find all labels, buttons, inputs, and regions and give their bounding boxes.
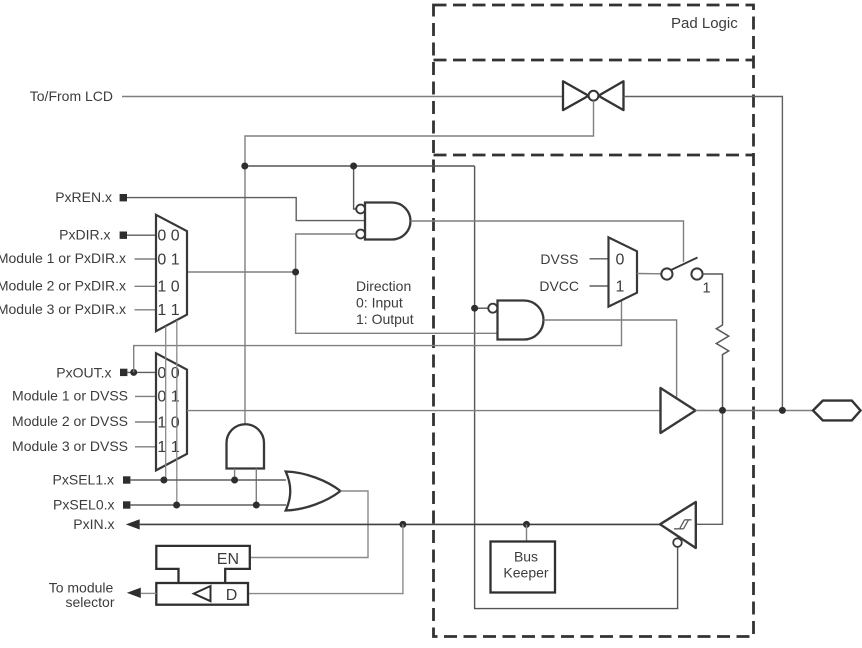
- svg-text:Pad Logic: Pad Logic: [671, 15, 738, 32]
- svg-text:DVSS: DVSS: [540, 251, 578, 267]
- and gate G3 vertical body: [227, 424, 265, 468]
- svg-text:0 1: 0 1: [157, 251, 179, 268]
- svg-text:PxOUT.x: PxOUT.x: [56, 364, 111, 380]
- svg-text:PxDIR.x: PxDIR.x: [59, 226, 110, 242]
- node junction direction net: [292, 269, 299, 276]
- mux M1 PxDIR select trapezoid: [156, 215, 187, 331]
- inner dashed box top line: [434, 59, 754, 62]
- svg-text:Module 3 or PxDIR.x: Module 3 or PxDIR.x: [0, 301, 126, 317]
- mux M2 PxOUT select trapezoid: [156, 353, 187, 470]
- node junction PxIN to bus keeper: [523, 521, 530, 528]
- wire bus keeper stub: [526, 524, 528, 541]
- wire G1 output to switch lever: [411, 221, 684, 262]
- svg-text:0 0: 0 0: [157, 228, 179, 245]
- clock triangle in D box: [194, 586, 211, 601]
- svg-text:EN: EN: [217, 551, 239, 568]
- wire select line S0: [176, 320, 178, 505]
- node junction PxSEL1 select: [160, 477, 167, 484]
- nand gate G2 input bubble: [488, 304, 497, 313]
- inner dashed box bottom line: [434, 154, 754, 157]
- wire direction net from mux M1 output: [296, 234, 498, 333]
- schmitt trigger B2 input buffer: [660, 502, 696, 548]
- nand gate G1 body: [365, 203, 411, 240]
- wire PxIN bus: [140, 523, 660, 525]
- switch SW1 left contact: [661, 268, 672, 279]
- wire G2 output to buffer enable: [544, 320, 677, 398]
- wire DVCC stub: [590, 285, 609, 287]
- wire mux M1 output stub: [187, 271, 296, 273]
- wire PxDIR.x stub: [127, 234, 156, 236]
- svg-text:To module: To module: [49, 579, 114, 595]
- svg-text:Module 3 or DVSS: Module 3 or DVSS: [12, 438, 128, 454]
- svg-text:1 0: 1 0: [157, 279, 179, 296]
- wire G3 input stub left: [234, 469, 236, 481]
- terminal square PxDIR.x: [120, 232, 127, 239]
- Pad Logic outer dashed box: [434, 5, 754, 637]
- wire PxREN.x to NAND1 middle input: [127, 198, 365, 221]
- wire pad line: [696, 410, 814, 412]
- arrow to module selector: [127, 588, 141, 598]
- wire module2 dir stub: [135, 285, 157, 287]
- wire long vertical to NAND2 bubble and Schmitt enable: [475, 166, 678, 609]
- mux M3 pull select trapezoid: [609, 237, 638, 306]
- hysteresis symbol: [674, 520, 692, 529]
- latch EN box: [156, 546, 250, 583]
- wire module3 dir stub: [135, 309, 157, 311]
- switch SW1 lever: [671, 258, 698, 271]
- wire module1 out stub: [135, 395, 156, 397]
- terminal square PxOUT.x: [120, 369, 127, 376]
- node junction PxSEL0 select: [173, 502, 180, 509]
- wire G3 input stub right: [255, 469, 257, 506]
- transmission gate U1 left triangle: [563, 81, 589, 110]
- node junction lcd pad: [779, 407, 786, 414]
- node junction at 474.6,308.2: [471, 305, 478, 312]
- node junction PxIN to D latch: [399, 521, 406, 528]
- wire PxSEL0.x to OR gate: [130, 504, 286, 506]
- transmission gate U1 right triangle: [598, 81, 623, 110]
- wire PxSEL1.x to OR gate: [130, 479, 286, 481]
- arrow PxIN.x: [126, 519, 140, 529]
- node junction PxSEL1 G3: [231, 477, 238, 484]
- nand gate G2 direction body: [498, 301, 544, 340]
- switch SW1 right contact: [691, 268, 702, 279]
- wire drop to NAND1 top bubble: [354, 166, 357, 209]
- svg-text:Module 1 or DVSS: Module 1 or DVSS: [12, 388, 128, 404]
- wire PxOUT.x stub to mux M2: [127, 371, 156, 373]
- svg-text:Keeper: Keeper: [503, 565, 548, 581]
- svg-text:PxSEL0.x: PxSEL0.x: [53, 496, 114, 512]
- node junction at 245,166: [241, 163, 248, 170]
- node junction PxOUT: [130, 369, 137, 376]
- terminal square PxREN.x: [120, 194, 127, 201]
- node junction resistor pad: [719, 407, 726, 414]
- terminal square PxSEL0.x: [123, 501, 130, 508]
- wire transmission gate to pad column: [624, 97, 783, 408]
- svg-text:PxREN.x: PxREN.x: [55, 189, 112, 205]
- bus keeper box: [491, 542, 556, 593]
- wire pad to schmitt input: [696, 414, 723, 525]
- pad hexagon P1: [813, 401, 861, 421]
- wire module2 out stub: [135, 421, 156, 423]
- wire stub to NAND2 bubble: [475, 307, 489, 309]
- svg-text:Module 1 or PxDIR.x: Module 1 or PxDIR.x: [0, 250, 126, 266]
- wire G4 output to EN latch: [250, 491, 368, 558]
- wire transmission gate control drop to AND output column: [245, 101, 594, 425]
- svg-text:1: 1: [616, 279, 625, 296]
- svg-text:1 1: 1 1: [157, 302, 179, 319]
- nand gate G1 top input bubble: [356, 205, 365, 214]
- svg-text:Bus: Bus: [514, 549, 538, 565]
- terminal square PxSEL1.x: [123, 476, 130, 483]
- node junction at 354,166: [350, 163, 357, 170]
- svg-text:Module 2 or DVSS: Module 2 or DVSS: [12, 413, 128, 429]
- wire mux M3 output to switch: [637, 273, 661, 275]
- wire select line S1: [165, 326, 167, 480]
- wire To/From LCD to transmission gate: [122, 96, 563, 98]
- wire PxIN to D input: [248, 524, 403, 593]
- wire net SEL enable horizontal y166: [245, 165, 475, 167]
- node junction PxSEL0 G3: [253, 502, 260, 509]
- wire mux M2 output to output buffer: [187, 410, 661, 412]
- transmission gate U1 center bubble: [589, 91, 599, 101]
- schmitt enable bubble: [673, 538, 682, 547]
- svg-text:PxSEL1.x: PxSEL1.x: [53, 471, 114, 487]
- wire PxOUT to pull mux select: [134, 300, 622, 372]
- resistor R1 with wires: [703, 274, 729, 407]
- wire D output to module selector: [141, 592, 157, 594]
- svg-text:selector: selector: [65, 594, 114, 610]
- svg-text:Direction: Direction: [356, 278, 411, 294]
- svg-text:DVCC: DVCC: [539, 278, 579, 294]
- latch D box: [156, 583, 248, 605]
- svg-text:PxIN.x: PxIN.x: [73, 516, 114, 532]
- svg-text:D: D: [226, 587, 238, 604]
- or gate G4: [286, 472, 341, 511]
- svg-text:1: Output: 1: Output: [356, 311, 414, 327]
- svg-text:0: 0: [616, 252, 625, 269]
- svg-text:Module 2 or PxDIR.x: Module 2 or PxDIR.x: [0, 277, 126, 293]
- output buffer B1: [661, 388, 696, 433]
- wire module1 dir stub: [135, 258, 157, 260]
- svg-text:To/From LCD: To/From LCD: [30, 88, 113, 104]
- wire module3 out stub: [135, 446, 156, 448]
- svg-text:1: 1: [703, 281, 711, 297]
- nand gate G1 bottom input bubble: [356, 230, 365, 239]
- svg-text:0: Input: 0: Input: [356, 294, 403, 310]
- wire DVSS stub: [590, 258, 609, 260]
